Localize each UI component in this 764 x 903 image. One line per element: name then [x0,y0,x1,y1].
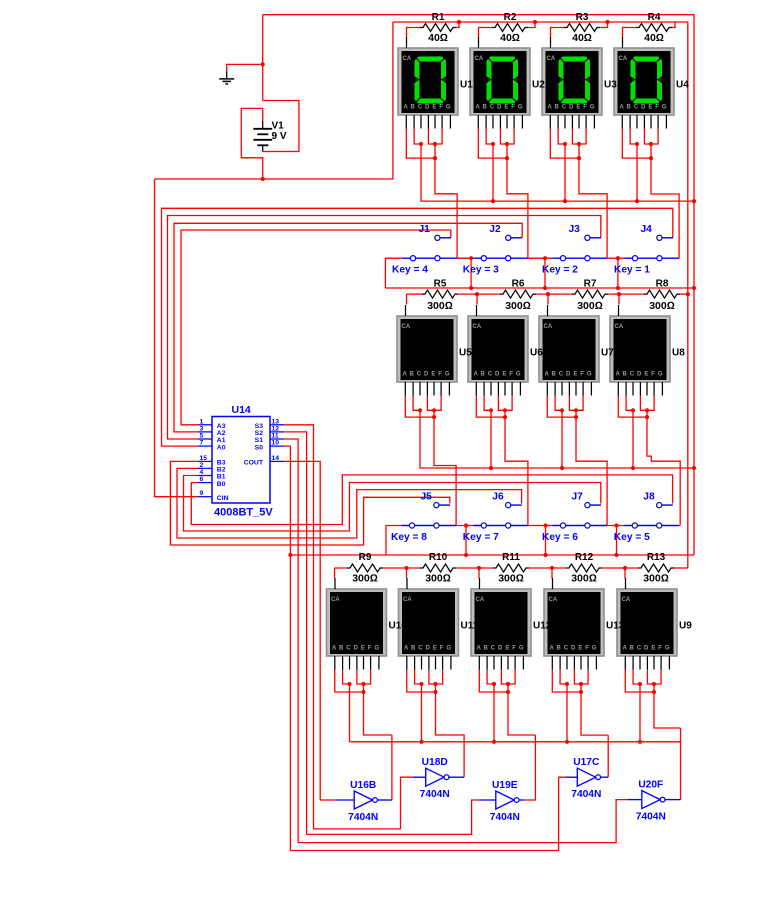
wire U18D output stub [449,776,464,778]
junction U2 A-E [505,156,509,160]
wire U11 segment D-F hook [429,670,443,685]
wire U5 segment A hook [405,396,434,418]
wire B2 feed to J6 throw [177,468,522,538]
wire chain to U5 CA [406,294,408,304]
seven-segment display U1 [398,37,458,129]
resistor R5 [422,279,458,313]
svg-text:300Ω: 300Ω [498,573,524,585]
wire switch common line row B [290,554,694,556]
junction U8 D-E-F [645,408,649,412]
wire U5 segment B hook [413,396,420,411]
wire U8 segment D-F hook [640,396,654,411]
wire U16B output stub [377,799,392,801]
wire chain to U8 CA [618,294,620,304]
wire J3 pole [544,258,546,288]
junction J8 pole on common line [614,553,618,557]
junction U1 D-E-F [433,142,437,146]
wire S0 output [284,446,290,850]
wire R3 left lead to U3 CA [551,28,565,38]
svg-text:U11: U11 [461,621,479,632]
svg-text:A B C D E F G: A B C D E F G [616,372,663,378]
svg-text:4: 4 [200,469,204,476]
wire U10 segment D-F hook [357,670,371,685]
junction U8 C-net [631,466,635,470]
junction U13 B-C [565,682,569,686]
junction chain U13 CA [550,566,554,570]
svg-text:R2: R2 [504,12,517,23]
wire U6 segment A hook [476,396,505,418]
IC U14 4008BT_5V 4-bit adder [198,417,284,504]
inverter U20F (7404N) [642,791,665,809]
svg-text:A1: A1 [217,437,226,444]
svg-text:10: 10 [272,440,280,447]
svg-text:A B C D E F G: A B C D E F G [545,372,592,378]
svg-text:7404N: 7404N [490,812,520,823]
wire J4 pole [617,258,619,288]
svg-text:B3: B3 [217,460,226,467]
wire U1 segment B hook [414,129,421,145]
wire U7 E-net riser to switch row B [576,410,607,525]
seven-segment display U3 [542,37,602,129]
junction U9 D-E-F [652,682,656,686]
junction U12 B-C [492,682,496,686]
svg-text:Key = 1: Key = 1 [614,265,650,276]
wire J1 riser to J2 bar [457,257,473,259]
wire U11 E-net to inverter output [436,684,465,735]
resistor R6 [500,279,536,313]
junction U6 C-net [489,466,493,470]
wire U19E output stub [519,799,524,801]
svg-text:Key = 7: Key = 7 [463,532,499,543]
wire battery output bus [155,22,393,179]
wire U8 segment B hook [626,396,633,411]
inverter U19E (7404N) [496,791,519,809]
svg-text:U19E: U19E [492,780,518,791]
svg-text:CA: CA [544,324,553,330]
junction U11 B-C [419,682,423,686]
wire J8 riser bar segment [679,525,680,527]
svg-text:40Ω: 40Ω [644,32,664,44]
svg-text:J5: J5 [421,492,433,503]
svg-text:300Ω: 300Ω [571,573,597,585]
svg-text:CA: CA [403,597,412,603]
wire chain to U11 CA [406,568,408,579]
wire anode chain row 2 [407,293,423,295]
svg-text:6: 6 [200,476,204,483]
wire U13 segment B hook [560,670,567,685]
junction J7 pole on common line [543,553,547,557]
junction U12 C-net [492,740,496,744]
wire U2 E-net riser to switch [507,144,528,258]
svg-text:Key = 6: Key = 6 [542,532,578,543]
wire U5 C-net starts collector line [420,410,694,468]
junction U13 D-E-F [579,682,583,686]
wire top bus from battery to right side [263,15,694,555]
wire U12 C-net to collector line [493,684,495,742]
wire COUT output [284,461,320,800]
junction row2 collector on right vertical [692,466,696,470]
resistor R7 [572,279,608,313]
svg-text:A B C D E F G: A B C D E F G [623,646,670,652]
svg-text:A B C D E F G: A B C D E F G [477,646,524,652]
junction U9 A-E [652,690,656,694]
wire U5 segment D-F hook [427,396,441,411]
wire U10 segment B hook [343,670,350,685]
svg-text:U10: U10 [389,621,408,632]
wire U17C output stub [601,776,609,778]
wire B1 feed to J7 throw [184,476,601,532]
wire U2 segment D-F hook [500,129,514,145]
junction R1 right [457,20,461,24]
svg-text:A0: A0 [217,444,226,451]
svg-text:14: 14 [272,455,280,462]
wire R3 right stub [600,22,608,28]
svg-text:1: 1 [200,418,204,425]
wire U7 C-net to collector line [561,410,563,468]
svg-text:B1: B1 [217,474,226,481]
switch J1 [402,235,457,261]
junction J4 pole on bar [616,256,620,260]
wire ground branch [227,64,263,71]
wire switch common line row A [385,287,694,289]
svg-text:7404N: 7404N [420,789,450,800]
junction collector row1 on right vertical [692,199,696,203]
svg-text:J8: J8 [643,492,655,503]
svg-text:J3: J3 [569,224,581,235]
junction U7 A-E [574,415,578,419]
wire U8 segment A hook [618,396,647,418]
wire J8 pole [616,526,618,556]
battery V1 9V [253,121,272,152]
svg-text:300Ω: 300Ω [643,573,669,585]
junction J2 pole on common line [469,286,473,290]
svg-text:J6: J6 [492,492,504,503]
junction U11 D-E-F [433,682,437,686]
wire U7 segment B hook [555,396,562,411]
svg-text:U2: U2 [532,80,545,91]
ground [219,72,234,84]
svg-text:3: 3 [200,425,204,432]
svg-text:U6: U6 [530,348,543,359]
junction U8 A-E [645,415,649,419]
svg-text:U20F: U20F [638,780,663,791]
svg-text:40Ω: 40Ω [428,32,448,44]
svg-text:Key = 5: Key = 5 [614,532,650,543]
wire U7 segment D-F hook [569,396,583,411]
wire battery top to bus [262,15,264,101]
resistor R10 [420,552,456,585]
junction chain U6 CA [475,292,479,296]
wire bus A3 from IC pin 1 to J1 throw [181,230,451,425]
svg-text:CA: CA [473,324,482,330]
svg-text:CA: CA [331,597,340,603]
svg-text:9 V: 9 V [272,131,287,142]
junction ground branch [261,62,265,66]
wire U12 segment B hook [487,670,494,685]
svg-text:J4: J4 [641,224,653,235]
junction U5 D-E-F [432,408,436,412]
junction U2 D-E-F [505,142,509,146]
wire R2 left lead to U2 CA [479,28,493,38]
svg-text:CA: CA [402,324,411,330]
wire U12 segment A hook [479,670,508,693]
junction J6 pole on bar [464,523,468,527]
wire U1 E-net riser to switch [435,144,457,258]
junction J6 pole on common line [464,553,468,557]
svg-text:V1: V1 [272,121,285,132]
switch J3 [552,235,607,261]
svg-text:U17C: U17C [573,757,600,768]
junction chain U9 CA [623,566,627,570]
svg-text:R6: R6 [512,279,525,290]
junction U12 D-E-F [506,682,510,686]
wire J5 riser to J6 bar [456,525,473,527]
wire S1 output [284,439,298,843]
seven-segment display U7 [539,305,599,396]
wire U11 segment B hook [415,670,422,685]
wire J5 pole connection [386,526,401,556]
svg-text:U8: U8 [672,348,685,359]
wire bus A2 from IC pin 3 to J2 throw [174,223,522,432]
junction U10 B-C [347,682,351,686]
junction U3 A-E [577,156,581,160]
wire U9 E-net to inverter output [654,684,681,728]
junction U3 D-E-F [577,142,581,146]
junction chain U11 CA [404,566,408,570]
svg-text:CA: CA [547,56,556,62]
seven-segment display U4 [614,37,674,129]
wire U2 segment B hook [486,129,493,145]
svg-text:40Ω: 40Ω [572,32,592,44]
junction U13 A-E [579,690,583,694]
svg-text:B2: B2 [217,467,226,474]
wire S0 loop to U17C input [290,777,566,850]
svg-text:CA: CA [622,597,631,603]
wire J7 pole [545,526,547,556]
svg-text:R3: R3 [576,12,589,23]
wire U18D input stub [413,776,426,778]
resistor R9 [347,552,383,585]
svg-text:R8: R8 [656,279,669,290]
wire J2 riser to J3 bar [528,257,552,259]
svg-text:A2: A2 [217,430,226,437]
wire U7 segment A hook [547,396,576,418]
svg-text:U12: U12 [533,621,552,632]
wire chain to U12 CA [478,568,480,579]
junction common row A on right vertical [692,286,696,290]
wire collector line row 3 [350,741,681,743]
wire S2 output [284,432,307,835]
junction U5 B-C [418,408,422,412]
wire chain to U10 CA [334,568,336,579]
seven-segment display U5 [397,305,457,396]
junction U13 C-net [565,740,569,744]
svg-text:4008BT_5V: 4008BT_5V [214,507,273,519]
svg-text:7404N: 7404N [348,812,378,823]
svg-text:5: 5 [200,433,204,440]
wire U11 segment A hook [407,670,436,693]
wire J6 riser to J7 bar [528,525,552,527]
wire R1 right stub [456,22,459,28]
wire U12 E-net to inverter output [508,684,535,735]
junction U9 C-net [638,740,642,744]
junction U12 A-E [506,690,510,694]
wire U9 segment B hook [633,670,640,685]
switch J5 [401,503,456,529]
wire S2 loop to U19E input [307,800,479,834]
resistor R3 [564,12,600,44]
wire U4 C-net to collector line [636,144,638,201]
svg-text:COUT: COUT [244,460,264,467]
wire U11 C-net to collector line [421,684,423,742]
resistor R12 [566,552,602,585]
wire U19E output riser [524,735,535,800]
junction U6 B-C [489,408,493,412]
seven-segment display U13 [544,578,604,670]
svg-text:S3: S3 [255,423,264,430]
svg-text:CA: CA [615,324,624,330]
wire U17C input stub [566,776,577,778]
junction U2 C-net [491,199,495,203]
svg-text:J7: J7 [572,492,584,503]
wire bus A1 from IC pin 5 to J3 throw [168,216,601,440]
junction J2 pole on bar [469,256,473,260]
wire U6 segment D-F hook [498,396,512,411]
svg-text:R5: R5 [434,279,447,290]
svg-text:Key = 2: Key = 2 [542,265,578,276]
wire J1 pole connection [385,258,402,288]
junction chain U8 CA [617,292,621,296]
inverter U16B (7404N) [354,791,377,809]
resistor R11 [493,552,529,585]
svg-text:CA: CA [403,56,412,62]
junction U4 D-E-F [649,142,653,146]
wire anode chain row 3 [335,567,348,569]
svg-text:300Ω: 300Ω [427,300,453,312]
junction U7 D-E-F [574,408,578,412]
svg-text:U4: U4 [676,80,689,91]
wire U5 E-net riser to switch row B [434,410,456,525]
inverter U18D (7404N) [426,768,449,786]
svg-text:U9: U9 [679,621,692,632]
seven-segment display U8 [610,305,670,396]
junction U3 B-C [563,142,567,146]
svg-text:S0: S0 [255,444,264,451]
wire U8 C-net to collector line [632,410,634,468]
junction U7 B-C [560,408,564,412]
wire U3 C-net to collector line [564,144,566,201]
junction common row B left [288,553,292,557]
wire B3 feed to J5 throw [170,461,449,545]
junction U11 C-net [419,740,423,744]
resistor R4 [636,12,672,44]
wire U13 C-net to collector line [566,684,568,742]
wire chain to U6 CA [476,294,478,304]
wire U16B output riser [391,735,393,800]
svg-text:R10: R10 [429,552,448,563]
resistor R13 [638,552,674,585]
junction J3 pole on common line [543,286,547,290]
svg-text:CA: CA [549,597,558,603]
svg-text:U16B: U16B [350,780,376,791]
svg-text:A B C D E F G: A B C D E F G [550,646,597,652]
junction U7 C-net [560,466,564,470]
junction U4 A-E [649,156,653,160]
junction chain row2 on +V vertical [686,292,690,296]
wire U2 segment A hook [478,129,507,159]
wire U16B input stub [335,799,354,801]
junction U4 C-net [635,199,639,203]
svg-text:A B C D E F G: A B C D E F G [474,372,521,378]
wire chain to U13 CA [551,568,553,579]
svg-text:CIN: CIN [217,495,229,502]
seven-segment display U2 [470,37,530,129]
wire J7 riser to J8 bar [607,525,624,527]
wire U6 E-net riser to switch row B [505,410,528,525]
svg-text:40Ω: 40Ω [500,32,520,44]
svg-text:A B C D E F G: A B C D E F G [403,372,450,378]
junction J8 pole on bar [614,523,618,527]
junction U10 A-E [361,690,365,694]
svg-text:S2: S2 [255,430,264,437]
wire S3 output [284,425,314,829]
wire U1 segment A hook [406,129,435,159]
wire U1 C-net starts collector line [421,144,694,201]
junction U5 A-E [432,415,436,419]
junction R3 right [605,20,609,24]
junction U1 B-C [419,142,423,146]
wire battery plus loop [241,108,262,179]
svg-text:7404N: 7404N [571,789,601,800]
svg-text:300Ω: 300Ω [505,300,531,312]
wire U9 segment D-F hook [647,670,661,685]
svg-text:15: 15 [200,455,208,462]
svg-text:9: 9 [200,490,204,497]
wire U3 segment A hook [550,129,579,159]
wire U10 C-net to collector line [349,684,351,742]
junction U1 A-E [433,156,437,160]
wire U16B input from COUT [320,799,335,801]
seven-segment display U11 [399,578,459,670]
svg-text:CA: CA [619,56,628,62]
svg-text:R13: R13 [647,552,666,563]
wire U18D output riser [463,735,465,777]
wire R4 right to right-side vertical [675,22,688,568]
wire U4 segment A hook [622,129,651,159]
seven-segment display U12 [471,578,531,670]
switch J4 [624,235,679,261]
svg-text:U1: U1 [460,80,473,91]
wire U2 C-net to collector line [492,144,494,201]
junction U2 B-C [491,142,495,146]
junction U4 B-C [635,142,639,146]
resistor R8 [644,279,680,313]
svg-text:12: 12 [272,425,280,432]
wire U9 segment A hook [625,670,654,693]
wire U3 E-net riser to switch [579,144,607,258]
svg-text:U13: U13 [606,621,625,632]
wire chain to U9 CA [624,568,626,579]
wire B0 feed to J8 throw [191,475,672,525]
wire U4 E-net riser to switch [651,144,679,258]
wire R1 left lead to U1 CA [407,28,421,38]
svg-text:U14: U14 [232,404,251,416]
wire J2 pole [470,258,472,288]
wire segment-resistor top bus [393,21,675,23]
resistor R2 [492,12,528,44]
wire battery minus loop [263,101,299,152]
resistor R1 [420,12,456,44]
